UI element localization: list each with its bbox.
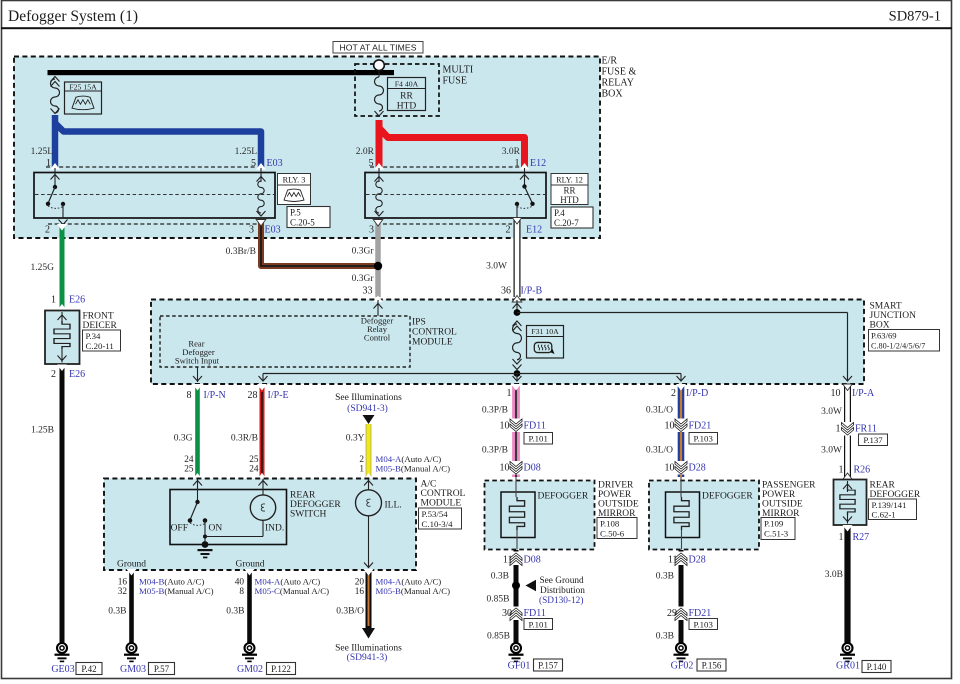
svg-text:E03: E03 [265, 225, 281, 236]
relay RLY.12 label [551, 174, 588, 206]
svg-text:F31 10A: F31 10A [531, 327, 559, 336]
svg-text:P.101: P.101 [529, 619, 548, 629]
svg-text:2.0R: 2.0R [356, 147, 375, 157]
relay RLY.3 switch [46, 163, 68, 225]
svg-text:DEFOGGER: DEFOGGER [290, 500, 341, 510]
defogger heater element (passenger) [674, 477, 689, 550]
wire 3.0B black to GR01 [844, 527, 850, 643]
svg-text:1.25B: 1.25B [31, 426, 54, 436]
svg-text:0.3Y: 0.3Y [346, 434, 365, 444]
smart junction box outline [151, 300, 864, 385]
svg-text:2: 2 [359, 455, 364, 465]
svg-text:RR: RR [400, 92, 413, 102]
svg-text:2: 2 [51, 369, 56, 380]
svg-text:25: 25 [184, 465, 194, 475]
svg-text:P.122: P.122 [271, 664, 291, 674]
MULTI FUSE sub-box [355, 64, 439, 116]
ground distribution junction [512, 582, 520, 590]
svg-text:P.63/69: P.63/69 [871, 331, 897, 341]
driver power outside mirror box [485, 481, 595, 550]
front deicer page ref box [83, 330, 121, 351]
svg-text:FD21: FD21 [689, 421, 712, 432]
svg-text:2: 2 [45, 225, 50, 236]
svg-text:REAR: REAR [290, 491, 316, 501]
rear defogger page ref box [869, 499, 917, 520]
svg-text:P.53/54: P.53/54 [422, 509, 449, 519]
svg-text:Ground: Ground [235, 560, 264, 570]
connector FD11 pin 30 [510, 607, 522, 621]
svg-text:0.3G: 0.3G [174, 434, 193, 444]
svg-text:1.25L: 1.25L [235, 147, 258, 157]
relay RLY.3 page ref box P.5 C.20-5 [287, 207, 330, 228]
svg-text:SWITCH: SWITCH [290, 510, 327, 520]
svg-text:3: 3 [369, 225, 374, 236]
svg-text:Defogger System (1): Defogger System (1) [8, 8, 138, 25]
ground GM03 [124, 643, 139, 662]
svg-text:P.42: P.42 [81, 664, 96, 674]
connector E12 dashed line top [370, 166, 520, 168]
svg-text:24: 24 [184, 455, 194, 465]
connector D28 exit pin 11 [679, 550, 684, 643]
svg-text:F4 40A: F4 40A [395, 80, 419, 89]
defogger relay control entry pin33 [373, 296, 383, 317]
svg-text:0.3B: 0.3B [656, 632, 674, 642]
defogger inner box (passenger) [666, 492, 700, 538]
connector E03 dashed line bottom [48, 223, 257, 225]
svg-text:D28: D28 [689, 555, 706, 566]
svg-text:IND.: IND. [265, 524, 284, 534]
svg-text:POWER: POWER [762, 490, 796, 500]
svg-text:0.3B/O: 0.3B/O [336, 607, 364, 617]
svg-text:0.3L/O: 0.3L/O [646, 406, 673, 416]
defogger heater element (driver) [509, 477, 524, 550]
switch internal ground [198, 541, 213, 558]
front deicer P34 box [45, 304, 80, 364]
svg-text:RLY. 12: RLY. 12 [556, 176, 583, 185]
svg-text:C.80-1/2/4/5/6/7: C.80-1/2/4/5/6/7 [871, 341, 925, 350]
svg-text:D08: D08 [524, 463, 541, 474]
connector E03 dashed line top [46, 166, 257, 168]
svg-text:I/P-A: I/P-A [852, 388, 875, 399]
connector E12 dashed line bottom [383, 223, 512, 225]
fuse F4 40A (multi fuse) [375, 71, 426, 117]
connector FD11 [510, 419, 522, 433]
wire 3.0W white relay12 pin2 to SJB pin36 [514, 219, 521, 298]
svg-text:SMART: SMART [870, 302, 902, 312]
svg-text:M05-B(Manual A/C): M05-B(Manual A/C) [376, 464, 451, 474]
svg-text:REAR: REAR [870, 481, 896, 491]
connector D08 entry [510, 461, 522, 475]
wire 0.3B to GM03 [129, 571, 134, 643]
relay RLY.12 switch [515, 163, 535, 218]
wire 0.3Gr gray relay12 pin3 to SJB pin33 [375, 222, 381, 297]
svg-text:36: 36 [501, 286, 511, 297]
svg-text:E26: E26 [69, 295, 85, 306]
passenger mirror page ref box [761, 518, 795, 540]
A/C control module box [104, 479, 416, 571]
ILL lamp [356, 479, 382, 568]
svg-text:FD21: FD21 [689, 608, 712, 619]
wire 0.3R/B red [260, 386, 265, 478]
svg-text:MODULE: MODULE [412, 338, 453, 348]
svg-text:M04-A(Auto A/C): M04-A(Auto A/C) [376, 454, 442, 464]
svg-text:28: 28 [248, 390, 258, 401]
rear defogger switch inner box [170, 490, 287, 545]
rear defogger box [834, 480, 867, 526]
relay RLY.3 internal dashed line [35, 194, 274, 196]
svg-text:HOT AT ALL TIMES: HOT AT ALL TIMES [339, 43, 416, 53]
svg-text:GF01: GF01 [508, 661, 531, 672]
ground GM02 [242, 643, 257, 662]
svg-text:E26: E26 [69, 369, 85, 380]
svg-text:HTD: HTD [560, 195, 579, 205]
svg-text:See Illuminations: See Illuminations [335, 393, 402, 403]
svg-text:E12: E12 [530, 158, 546, 169]
svg-text:P.137: P.137 [863, 435, 883, 445]
svg-text:3.0W: 3.0W [821, 407, 842, 417]
fuse F31 10A [513, 321, 564, 370]
IPS control module box [160, 316, 410, 367]
svg-text:Control: Control [364, 333, 391, 343]
svg-text:0.3Br/B: 0.3Br/B [226, 247, 256, 257]
relay RLY.3 box [34, 173, 275, 219]
svg-text:P.5: P.5 [290, 208, 301, 218]
connector D28 entry [675, 461, 687, 475]
svg-text:0.3Gr: 0.3Gr [352, 274, 375, 284]
defogger switch contacts [188, 500, 208, 526]
wire 0.3Br/B brown relay3 pin3 to junction [261, 222, 375, 266]
svg-text:P.139/141: P.139/141 [872, 500, 907, 510]
illumination out arrow [362, 628, 375, 639]
svg-text:24: 24 [249, 465, 259, 475]
svg-text:0.85B: 0.85B [487, 632, 510, 642]
svg-text:8: 8 [187, 390, 192, 401]
svg-text:(SD130-12): (SD130-12) [539, 595, 583, 606]
svg-text:0.3B: 0.3B [491, 572, 509, 582]
svg-text:OFF: OFF [171, 524, 188, 534]
HOT AT ALL TIMES label [333, 42, 423, 54]
svg-text:A/C: A/C [421, 480, 437, 490]
svg-text:8: 8 [239, 587, 244, 597]
svg-text:40: 40 [235, 578, 245, 588]
svg-text:(SD941-3): (SD941-3) [347, 652, 388, 663]
svg-text:1.25G: 1.25G [31, 263, 55, 273]
wire 1.25B black to GE03 [60, 367, 65, 644]
svg-text:See Ground: See Ground [540, 576, 585, 586]
wire 1.25L blue from F25 to relay pins [52, 115, 59, 168]
svg-text:BOX: BOX [602, 89, 624, 100]
svg-text:10: 10 [665, 463, 675, 474]
svg-text:0.3B: 0.3B [108, 607, 126, 617]
svg-text:10: 10 [831, 388, 841, 399]
wire 0.3B to GM02 [247, 571, 252, 643]
svg-text:1.25L: 1.25L [31, 147, 54, 157]
passenger power outside mirror box [649, 481, 759, 550]
svg-text:P.57: P.57 [154, 664, 170, 674]
header rule [1, 27, 952, 29]
relay RLY.3 coil [256, 163, 266, 216]
svg-text:FD11: FD11 [524, 421, 546, 432]
svg-text:Switch Input: Switch Input [175, 356, 220, 366]
ground GR01 [840, 643, 855, 662]
svg-text:C.62-1: C.62-1 [872, 510, 896, 520]
svg-text:1: 1 [507, 388, 512, 399]
illumination feed arrow [363, 415, 375, 424]
svg-text:0.3Gr: 0.3Gr [352, 247, 375, 257]
svg-text:M04-A(Auto A/C): M04-A(Auto A/C) [376, 577, 442, 587]
svg-text:3.0W: 3.0W [821, 446, 842, 456]
svg-text:0.3P/B: 0.3P/B [482, 406, 508, 416]
svg-text:P.103: P.103 [694, 434, 714, 444]
rear defogger switch output pin8 [193, 367, 202, 382]
ground GF01 [509, 643, 524, 662]
svg-text:1: 1 [839, 532, 844, 543]
ground GF02 [674, 643, 689, 662]
relay RLY.3 label [278, 174, 311, 205]
svg-text:GR01: GR01 [836, 661, 860, 672]
svg-text:CONTROL: CONTROL [421, 489, 466, 499]
wire 1.25G green relay3 pin2 to E26 [60, 225, 65, 309]
svg-text:DEFOGGER: DEFOGGER [702, 492, 753, 502]
svg-text:P.101: P.101 [529, 434, 548, 444]
svg-text:MODULE: MODULE [421, 499, 462, 509]
SJB page ref box [869, 330, 940, 352]
svg-text:FUSE &: FUSE & [602, 67, 637, 78]
svg-text:POWER: POWER [598, 490, 632, 500]
svg-text:C.50-6: C.50-6 [600, 528, 625, 538]
svg-text:R27: R27 [853, 532, 870, 543]
svg-text:(SD941-3): (SD941-3) [347, 403, 388, 414]
svg-text:1: 1 [839, 465, 844, 476]
svg-text:P.157: P.157 [538, 661, 558, 671]
switch to ground/lamp wiring [203, 520, 263, 544]
svg-text:E/R: E/R [602, 56, 618, 67]
svg-text:DEFOGGER: DEFOGGER [538, 492, 589, 502]
svg-text:3.0B: 3.0B [825, 570, 843, 580]
svg-text:I/P-N: I/P-N [204, 390, 226, 401]
svg-text:See Illuminations: See Illuminations [335, 644, 402, 654]
driver mirror page ref box [597, 518, 637, 539]
svg-text:JUNCTION: JUNCTION [870, 311, 917, 321]
svg-text:2: 2 [506, 225, 511, 236]
svg-text:I/P-B: I/P-B [521, 286, 543, 297]
relay RLY.12 page ref box P.4 C.20-7 [551, 207, 593, 228]
svg-text:20: 20 [355, 578, 365, 588]
switch input pin arrow [193, 479, 202, 502]
svg-text:16: 16 [118, 578, 128, 588]
svg-text:FUSE: FUSE [443, 76, 467, 87]
svg-text:ON: ON [209, 524, 223, 534]
svg-text:10: 10 [665, 421, 675, 432]
svg-text:P.109: P.109 [764, 519, 784, 529]
svg-text:IPS: IPS [412, 318, 426, 328]
svg-text:GM02: GM02 [237, 664, 263, 675]
svg-text:Ground: Ground [117, 560, 146, 570]
wire 0.3G green [195, 386, 200, 478]
svg-text:Distribution: Distribution [540, 586, 585, 596]
svg-text:P.140: P.140 [867, 662, 887, 672]
svg-text:11: 11 [668, 555, 678, 566]
svg-text:P.156: P.156 [702, 661, 722, 671]
connector FR11 [842, 422, 854, 436]
svg-text:M05-C(Manual A/C): M05-C(Manual A/C) [255, 586, 330, 596]
svg-text:GM03: GM03 [120, 664, 146, 675]
connector FD21 [675, 419, 687, 433]
svg-text:0.3P/B: 0.3P/B [482, 446, 508, 456]
junction node Br/B-Gr [374, 262, 382, 270]
fuse F25 15A [51, 77, 102, 115]
power bus bar [48, 70, 395, 75]
svg-text:10: 10 [500, 421, 510, 432]
relay RLY.12 box [365, 173, 546, 219]
svg-text:33: 33 [363, 286, 373, 297]
relay RLY.12 internal dashed line [366, 194, 545, 196]
svg-text:C.20-5: C.20-5 [290, 218, 315, 228]
svg-text:D28: D28 [689, 463, 706, 474]
svg-text:25: 25 [249, 455, 259, 465]
relay RLY.12 coil [374, 163, 384, 216]
E/R fuse & relay box outline [14, 57, 600, 239]
svg-text:GF02: GF02 [671, 661, 694, 672]
svg-text:E03: E03 [267, 158, 283, 169]
wire 2.0R/3.0R red from F4 to relay pins [376, 120, 383, 168]
svg-text:M04-A(Auto A/C): M04-A(Auto A/C) [255, 577, 321, 587]
svg-text:HTD: HTD [397, 102, 417, 112]
wire 3.0W white [844, 386, 851, 479]
svg-text:SD879-1: SD879-1 [889, 9, 941, 25]
svg-text:I/P-E: I/P-E [268, 390, 289, 401]
bus node circle [374, 60, 385, 71]
svg-text:P.103: P.103 [694, 619, 714, 629]
connector D08 exit pin 11 [514, 550, 519, 643]
svg-text:0.85B: 0.85B [487, 595, 510, 605]
wire 0.3P/B pink [512, 386, 520, 477]
svg-text:2: 2 [671, 388, 676, 399]
SJB pin36 node and internal wiring [512, 296, 852, 382]
svg-text:GE03: GE03 [51, 664, 74, 675]
svg-text:C.10-3/4: C.10-3/4 [422, 519, 454, 529]
svg-text:C.20-7: C.20-7 [554, 218, 579, 228]
svg-text:FR11: FR11 [855, 424, 877, 435]
svg-text:0.3R/B: 0.3R/B [231, 434, 258, 444]
junction node below F31 [514, 370, 521, 377]
svg-text:RR: RR [563, 186, 575, 196]
svg-text:P.108: P.108 [600, 519, 620, 529]
svg-text:FRONT: FRONT [83, 312, 114, 322]
wire 0.3Y yellow [366, 424, 372, 478]
svg-text:C.20-11: C.20-11 [86, 341, 114, 351]
svg-text:32: 32 [118, 587, 128, 597]
svg-text:CONTROL: CONTROL [412, 328, 457, 338]
svg-text:11: 11 [503, 555, 513, 566]
svg-text:3.0R: 3.0R [502, 147, 521, 157]
svg-text:FD11: FD11 [524, 608, 546, 619]
A/C page ref box [419, 508, 462, 529]
svg-text:10: 10 [500, 463, 510, 474]
svg-text:P.4: P.4 [554, 208, 565, 218]
svg-text:0.3B: 0.3B [656, 572, 674, 582]
svg-text:3: 3 [249, 225, 254, 236]
svg-text:R26: R26 [854, 465, 871, 476]
ground GE03 [55, 643, 70, 662]
svg-text:1: 1 [51, 295, 56, 306]
svg-text:0.3L/O: 0.3L/O [646, 446, 673, 456]
svg-text:PASSENGER: PASSENGER [762, 481, 816, 491]
svg-text:0.3B: 0.3B [226, 607, 244, 617]
wire 0.3L/O blue/orange [678, 386, 685, 477]
IND lamp [250, 479, 275, 520]
svg-text:1: 1 [836, 424, 841, 435]
svg-text:OUTSIDE: OUTSIDE [762, 500, 803, 510]
svg-text:M04-B(Auto A/C): M04-B(Auto A/C) [139, 577, 204, 587]
svg-text:DRIVER: DRIVER [598, 481, 634, 491]
svg-text:P.34: P.34 [86, 331, 102, 341]
svg-text:M05-B(Manual A/C): M05-B(Manual A/C) [139, 586, 214, 596]
svg-text:M05-B(Manual A/C): M05-B(Manual A/C) [376, 586, 451, 596]
svg-text:F25 15A: F25 15A [69, 83, 97, 92]
svg-text:ILL.: ILL. [385, 501, 402, 511]
svg-text:D08: D08 [524, 555, 541, 566]
svg-text:E12: E12 [526, 225, 542, 236]
svg-text:C.51-3: C.51-3 [764, 529, 789, 539]
internal wire to I/P-E and I/P-D [263, 373, 681, 375]
svg-text:MULTI: MULTI [443, 65, 474, 76]
svg-text:I/P-D: I/P-D [686, 388, 708, 399]
svg-text:29: 29 [667, 608, 677, 619]
svg-text:1: 1 [359, 465, 364, 475]
svg-text:OUTSIDE: OUTSIDE [598, 500, 639, 510]
wire 0.3B/O black/orange [366, 571, 372, 628]
svg-text:16: 16 [355, 587, 365, 597]
svg-text:RELAY: RELAY [602, 78, 634, 89]
defogger inner box (driver) [501, 492, 535, 538]
svg-text:3.0W: 3.0W [486, 262, 507, 272]
connector FD21 pin 29 [675, 607, 687, 621]
svg-text:RLY. 3: RLY. 3 [283, 176, 306, 185]
svg-text:30: 30 [502, 608, 512, 619]
